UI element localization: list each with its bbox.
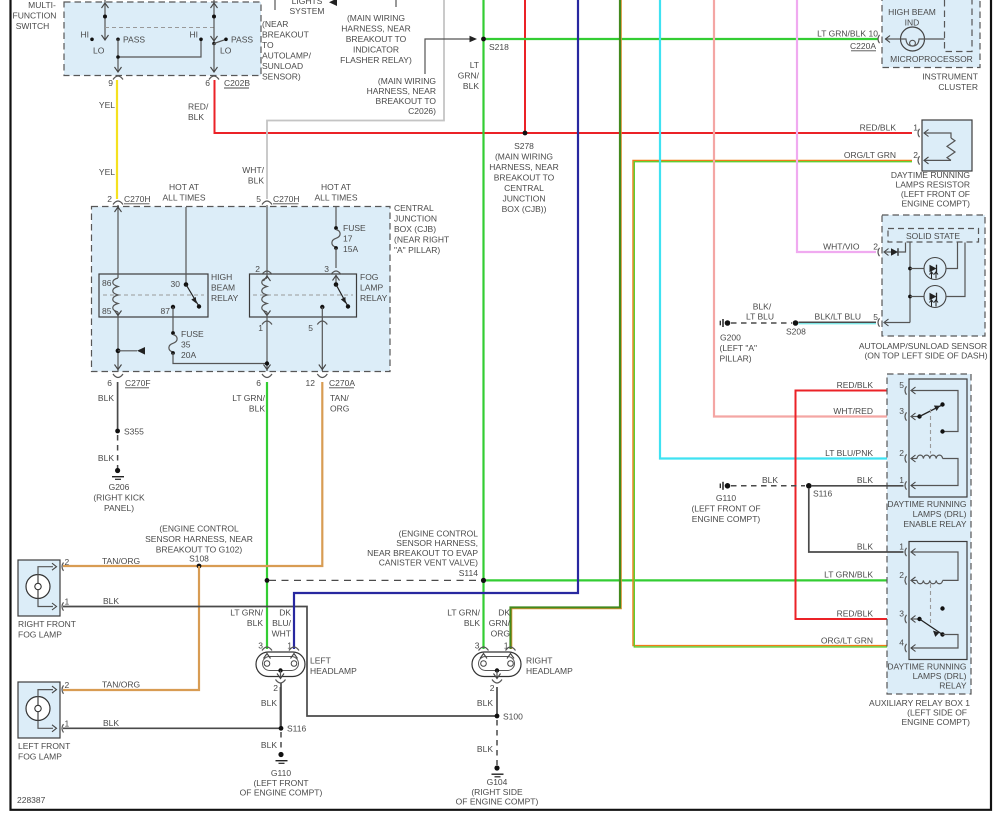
wire BLK C270F pin 6 to S355 xyxy=(117,382,119,431)
svg-text:(NEAR RIGHT: (NEAR RIGHT xyxy=(394,235,449,245)
central junction box xyxy=(92,207,391,372)
svg-text:BLK: BLK xyxy=(477,698,493,708)
svg-text:15A: 15A xyxy=(343,244,358,254)
svg-text:LO: LO xyxy=(93,46,105,56)
svg-text:LAMP: LAMP xyxy=(360,283,383,293)
svg-text:BLK: BLK xyxy=(248,176,264,186)
connector pin 6 center xyxy=(256,374,272,388)
svg-text:LT GRN/: LT GRN/ xyxy=(447,608,480,618)
high beam relay label xyxy=(211,272,239,303)
svg-text:5: 5 xyxy=(899,380,904,390)
svg-text:6: 6 xyxy=(256,378,261,388)
svg-text:BREAKOUT: BREAKOUT xyxy=(262,30,309,40)
svg-text:ORG/LT GRN: ORG/LT GRN xyxy=(821,636,873,646)
MFS HI contact left xyxy=(81,30,94,42)
svg-text:C270H: C270H xyxy=(273,194,299,204)
fog relay pin 3 xyxy=(324,248,341,275)
svg-text:SENSOR HARNESS, NEAR: SENSOR HARNESS, NEAR xyxy=(145,534,253,544)
high beam relay box xyxy=(99,274,208,317)
svg-text:BOX (CJB)): BOX (CJB)) xyxy=(502,204,547,214)
svg-text:3: 3 xyxy=(324,264,329,274)
HB relay switch blade xyxy=(186,285,201,309)
svg-text:(ENGINE CONTROL: (ENGINE CONTROL xyxy=(159,524,239,534)
svg-text:S116: S116 xyxy=(813,489,832,499)
svg-text:HI: HI xyxy=(81,30,90,40)
sensor label xyxy=(859,341,988,361)
svg-text:PASS: PASS xyxy=(231,35,253,45)
svg-text:AUTOLAMP/: AUTOLAMP/ xyxy=(262,51,312,61)
HB relay coil out wire xyxy=(115,311,122,372)
svg-text:(RIGHT KICK: (RIGHT KICK xyxy=(93,493,145,503)
fog relay coil feed xyxy=(264,205,271,281)
svg-text:(LEFT FRONT: (LEFT FRONT xyxy=(253,778,308,788)
wire LT GRN/BLK CJB pin 6 to left headlamp pin 3 xyxy=(266,382,268,649)
fog lamp relay label xyxy=(360,272,388,303)
svg-text:LT GRN/: LT GRN/ xyxy=(232,393,265,403)
svg-text:3: 3 xyxy=(258,641,263,651)
svg-text:G110: G110 xyxy=(716,493,736,503)
svg-text:2: 2 xyxy=(255,264,260,274)
svg-text:YEL: YEL xyxy=(99,100,115,110)
svg-text:RIGHT FRONT: RIGHT FRONT xyxy=(18,619,76,629)
S114 location note xyxy=(367,528,478,578)
HB relay contact 30 feed xyxy=(171,207,189,289)
svg-text:RED/: RED/ xyxy=(188,102,209,112)
svg-text:(LEFT "A": (LEFT "A" xyxy=(720,343,758,353)
svg-text:NEAR BREAKOUT TO EVAP: NEAR BREAKOUT TO EVAP xyxy=(367,548,478,558)
wire BLK right headlamp pin 2 to S100 xyxy=(496,687,498,716)
svg-text:228387: 228387 xyxy=(17,795,46,805)
svg-text:C270H: C270H xyxy=(124,194,150,204)
diode at sensor pin 2 xyxy=(891,243,906,256)
fuse 17 feed xyxy=(335,207,337,228)
wire BLK/LT BLU S208 to sensor pin 5 xyxy=(799,322,877,324)
svg-text:86: 86 xyxy=(102,278,112,288)
left front fog lamp xyxy=(18,680,70,762)
svg-text:(ON TOP LEFT SIDE OF DASH): (ON TOP LEFT SIDE OF DASH) xyxy=(864,351,987,361)
connector C220A pin 10 xyxy=(850,29,880,52)
svg-text:CANISTER VENT VALVE): CANISTER VENT VALVE) xyxy=(379,558,478,568)
svg-text:LT BLU/PNK: LT BLU/PNK xyxy=(825,448,873,458)
svg-text:1: 1 xyxy=(258,323,263,333)
svg-text:"A" PILLAR): "A" PILLAR) xyxy=(394,245,440,255)
svg-text:(MAIN WIRING: (MAIN WIRING xyxy=(495,152,553,162)
splice S108 xyxy=(189,554,209,569)
splice S100 xyxy=(495,712,524,722)
svg-text:HOT AT: HOT AT xyxy=(321,182,351,192)
multi-function switch box xyxy=(64,2,261,76)
S108 location note xyxy=(145,524,253,555)
label HOT AT ALL TIMES left xyxy=(163,182,206,203)
svg-text:BREAKOUT TO: BREAKOUT TO xyxy=(346,34,407,44)
svg-text:SOLID STATE: SOLID STATE xyxy=(906,231,960,241)
svg-text:FUSE: FUSE xyxy=(343,223,366,233)
svg-text:DK: DK xyxy=(279,608,291,618)
right front fog lamp xyxy=(18,557,76,640)
wire TAN/ORG S108 down to left fog lamp xyxy=(63,566,199,690)
svg-text:WHT/VIO: WHT/VIO xyxy=(823,242,860,252)
svg-text:BLK: BLK xyxy=(261,698,277,708)
svg-text:FOG LAMP: FOG LAMP xyxy=(18,752,62,762)
note main wiring harness near breakout to indicator flasher relay xyxy=(340,13,412,65)
svg-text:6: 6 xyxy=(205,78,210,88)
svg-text:BREAKOUT TO G102): BREAKOUT TO G102) xyxy=(156,545,243,555)
svg-text:GRN/: GRN/ xyxy=(458,71,480,81)
DRL enable relay label xyxy=(887,499,967,529)
svg-text:BLK/LT BLU: BLK/LT BLU xyxy=(815,312,861,322)
svg-text:WHT/RED: WHT/RED xyxy=(833,406,873,416)
svg-text:C2026): C2026) xyxy=(408,106,436,116)
svg-text:DAYTIME RUNNING: DAYTIME RUNNING xyxy=(891,170,970,180)
feed arrow junction on BLK coil return xyxy=(116,347,145,355)
svg-text:RELAY: RELAY xyxy=(939,681,967,691)
svg-text:PANEL): PANEL) xyxy=(104,503,134,513)
wire YEL MFS pin 9 to C270H pin 2 xyxy=(116,80,118,199)
svg-text:PILLAR): PILLAR) xyxy=(720,354,752,364)
MFS pass link wire xyxy=(115,38,203,73)
ground G110 left xyxy=(240,752,323,798)
svg-text:BLK: BLK xyxy=(464,618,480,628)
svg-text:TO: TO xyxy=(262,40,274,50)
label WHT/BLK xyxy=(242,165,264,186)
wire BLK dashed G110 to S116 xyxy=(731,485,805,487)
note main wiring harness near breakout to C2026 xyxy=(367,76,437,116)
phototransistor lower xyxy=(910,243,965,308)
splice S218 xyxy=(481,37,509,52)
svg-text:BLK: BLK xyxy=(463,81,479,91)
svg-text:5: 5 xyxy=(308,323,313,333)
svg-text:BLK: BLK xyxy=(857,475,873,485)
splice S208 xyxy=(786,320,806,336)
enable relay pin 3 and blade xyxy=(899,402,944,420)
svg-text:LAMPS (DRL): LAMPS (DRL) xyxy=(913,509,967,519)
auxiliary relay box label xyxy=(869,698,970,727)
svg-text:BLK: BLK xyxy=(477,744,493,754)
svg-text:1: 1 xyxy=(65,719,70,729)
svg-text:CLUSTER: CLUSTER xyxy=(938,82,978,92)
svg-text:ENGINE COMPT): ENGINE COMPT) xyxy=(902,199,971,209)
svg-text:1: 1 xyxy=(899,542,904,552)
svg-text:ORG/LT GRN: ORG/LT GRN xyxy=(844,150,896,160)
wire fuse 35 to fog relay output xyxy=(173,353,267,364)
svg-text:C202B: C202B xyxy=(224,78,250,88)
splice S116 right xyxy=(806,483,832,499)
svg-text:4: 4 xyxy=(899,638,904,648)
svg-text:BLK: BLK xyxy=(261,740,277,750)
HB relay coil xyxy=(113,278,118,312)
high beam ind label xyxy=(888,7,936,28)
wire DK GRN/ORG from top to right headlamp pin 1 xyxy=(511,0,621,649)
svg-text:ORG: ORG xyxy=(330,404,349,414)
DRL relay pin 4 xyxy=(899,638,915,653)
svg-text:BLK: BLK xyxy=(98,453,114,463)
wire LT BLU/PNK from top to DRL enable relay pin 2 xyxy=(660,0,904,459)
MFS pin 6 / C202B xyxy=(205,76,250,88)
wire BLK left headlamp pin 2 to S116 xyxy=(280,687,282,726)
splice S355 xyxy=(115,427,144,437)
wire BLK dashed S116 to G110 xyxy=(280,732,282,752)
svg-text:BLK: BLK xyxy=(103,718,119,728)
wire RED/BLK MFS pin 6 down and across to DRL resistor pin 1 xyxy=(215,80,913,133)
svg-text:RELAY: RELAY xyxy=(211,293,239,303)
svg-text:S355: S355 xyxy=(124,427,144,437)
enable relay actuator dashed link xyxy=(930,409,932,454)
svg-text:IND: IND xyxy=(905,18,920,28)
svg-text:SWITCH: SWITCH xyxy=(16,21,50,31)
svg-text:LO: LO xyxy=(220,46,232,56)
svg-text:S116: S116 xyxy=(287,724,306,734)
enable relay coil pin 2 xyxy=(899,448,958,486)
svg-text:G200: G200 xyxy=(720,333,741,343)
svg-text:DK: DK xyxy=(498,608,510,618)
svg-text:3: 3 xyxy=(475,641,480,651)
svg-text:JUNCTION: JUNCTION xyxy=(503,194,546,204)
ground G200 xyxy=(720,319,758,364)
svg-text:HI: HI xyxy=(190,30,199,40)
svg-text:BLK: BLK xyxy=(103,596,119,606)
svg-text:RED/BLK: RED/BLK xyxy=(837,609,874,619)
svg-text:YEL: YEL xyxy=(99,167,115,177)
wire BLK left fog lamp pin 1 to S116 xyxy=(63,683,281,728)
label RED/BLK at MFS xyxy=(188,102,209,123)
svg-text:CENTRAL: CENTRAL xyxy=(504,183,544,193)
svg-text:ORG: ORG xyxy=(491,629,510,639)
MFS pin 9 xyxy=(108,76,123,88)
svg-text:RIGHT: RIGHT xyxy=(526,656,552,666)
svg-text:(MAIN WIRING: (MAIN WIRING xyxy=(347,13,405,23)
svg-text:(LEFT FRONT OF: (LEFT FRONT OF xyxy=(901,189,970,199)
high beam indicator bulb xyxy=(885,27,945,51)
fog relay coil xyxy=(262,278,267,312)
svg-text:C220A: C220A xyxy=(850,41,876,51)
svg-text:CENTRAL: CENTRAL xyxy=(394,203,434,213)
svg-text:(ENGINE CONTROL: (ENGINE CONTROL xyxy=(399,528,479,538)
svg-text:LAMPS (DRL): LAMPS (DRL) xyxy=(913,671,967,681)
svg-text:35: 35 xyxy=(181,340,191,350)
svg-text:10: 10 xyxy=(869,29,879,39)
wire LT GRN/BLK horizontal to instrument cluster pin 10 xyxy=(484,38,879,40)
label LT GRN/BLK below S218 xyxy=(458,60,480,91)
svg-text:TAN/ORG: TAN/ORG xyxy=(102,556,140,566)
label HOT AT ALL TIMES right xyxy=(315,182,358,203)
svg-text:6: 6 xyxy=(107,378,112,388)
svg-text:2: 2 xyxy=(107,194,112,204)
wire WHT/BLK from top to C270H pin 5 xyxy=(267,0,444,199)
svg-text:SENSOR): SENSOR) xyxy=(262,72,301,82)
svg-text:ALL TIMES: ALL TIMES xyxy=(315,193,358,203)
svg-text:S278: S278 xyxy=(514,141,534,151)
svg-text:(LEFT FRONT OF: (LEFT FRONT OF xyxy=(691,504,760,514)
sensor pin 5 xyxy=(873,312,910,327)
svg-text:PASS: PASS xyxy=(123,35,145,45)
connector C270H pin 2 xyxy=(107,194,150,205)
wire RED/BLK stub above S278 xyxy=(524,0,526,133)
svg-text:(MAIN WIRING: (MAIN WIRING xyxy=(378,76,436,86)
svg-text:OF ENGINE COMPT): OF ENGINE COMPT) xyxy=(240,788,323,798)
svg-text:SYSTEM: SYSTEM xyxy=(290,6,325,16)
svg-text:HEADLAMP: HEADLAMP xyxy=(526,666,573,676)
svg-text:INSTRUMENT: INSTRUMENT xyxy=(922,72,978,82)
DRL enable relay box xyxy=(909,379,967,497)
svg-text:5: 5 xyxy=(256,194,261,204)
splice S116 left xyxy=(279,724,307,734)
svg-text:HARNESS, NEAR: HARNESS, NEAR xyxy=(367,86,436,96)
sensor internal bus wire xyxy=(908,243,912,323)
resistor element xyxy=(924,130,955,164)
svg-text:ENGINE COMPT): ENGINE COMPT) xyxy=(692,514,761,524)
svg-text:RED/BLK: RED/BLK xyxy=(860,123,897,133)
wire TAN/ORG CJB pin 12 to fog lamps xyxy=(63,382,322,566)
svg-text:1: 1 xyxy=(899,475,904,485)
label DK BLU/WHT xyxy=(272,608,292,639)
fuse 17 xyxy=(332,223,366,254)
fog relay switch blade xyxy=(336,285,350,309)
wire BLK S116 to enable relay pin 1 xyxy=(811,485,904,487)
svg-text:(NEAR: (NEAR xyxy=(262,19,288,29)
DRL relay floating contact xyxy=(940,606,944,610)
HB relay coil feed wire from pin 2 xyxy=(115,205,122,278)
svg-text:1: 1 xyxy=(913,123,918,133)
svg-text:BOX (CJB): BOX (CJB) xyxy=(394,224,436,234)
phototransistor upper xyxy=(910,243,958,280)
svg-text:BLK: BLK xyxy=(857,542,873,552)
wire BLK dashed S100 to G104 xyxy=(496,720,498,765)
svg-text:2: 2 xyxy=(490,683,495,693)
svg-text:TAN/ORG: TAN/ORG xyxy=(102,680,140,690)
svg-text:LT GRN/BLK: LT GRN/BLK xyxy=(824,570,873,580)
wire RED/BLK DRL enable relay pin 5 to DRL relay pin 3 xyxy=(796,391,904,620)
svg-text:LT GRN/: LT GRN/ xyxy=(230,608,263,618)
fog relay contact feed dot xyxy=(333,275,340,287)
fog relay pin 5 xyxy=(308,321,327,370)
svg-text:2: 2 xyxy=(899,570,904,580)
DRL relay actuator dashed link xyxy=(930,584,932,627)
microprocessor inner box xyxy=(945,0,973,52)
connector C270A pin 12 xyxy=(306,374,356,388)
svg-text:INDICATOR: INDICATOR xyxy=(353,45,399,55)
MFS right switch pole xyxy=(211,0,228,72)
svg-text:LEFT FRONT: LEFT FRONT xyxy=(18,741,70,751)
svg-text:S100: S100 xyxy=(503,712,523,722)
svg-text:20A: 20A xyxy=(181,350,196,360)
svg-text:JUNCTION: JUNCTION xyxy=(394,214,437,224)
svg-text:LEFT: LEFT xyxy=(310,656,331,666)
svg-text:BREAKOUT TO: BREAKOUT TO xyxy=(376,96,437,106)
right headlamp xyxy=(472,641,573,694)
note near breakout to autolamp/sunload sensor xyxy=(262,19,312,82)
wire LT GRN/BLK S114 to DRL relay pin 2 xyxy=(486,579,904,581)
MFS PASS contact left xyxy=(116,35,145,45)
svg-text:LAMPS RESISTOR: LAMPS RESISTOR xyxy=(896,180,970,190)
resistor pin 1 xyxy=(913,123,919,138)
ground G206 xyxy=(93,468,145,513)
ground G104 xyxy=(456,765,539,806)
svg-text:HOT AT: HOT AT xyxy=(169,182,199,192)
svg-text:WHT/: WHT/ xyxy=(242,165,264,175)
DRL relay label xyxy=(887,662,967,691)
svg-text:1: 1 xyxy=(287,641,292,651)
wire BLK S116 to DRL relay pin 1 xyxy=(809,488,904,552)
svg-text:LT BLU: LT BLU xyxy=(746,312,774,322)
svg-text:BLK: BLK xyxy=(762,475,778,485)
relay divider dashed xyxy=(103,294,204,296)
svg-text:HARNESS, NEAR: HARNESS, NEAR xyxy=(489,162,558,172)
svg-text:85: 85 xyxy=(102,306,112,316)
wire BLK dashed S355 to G206 xyxy=(117,435,119,468)
fog lamp relay box xyxy=(250,274,357,317)
svg-text:G104: G104 xyxy=(487,777,508,787)
instrument cluster label xyxy=(922,72,978,93)
svg-text:MULTI-: MULTI- xyxy=(28,0,56,10)
label LT GRN/BLK xyxy=(232,393,265,414)
lights system callout with arrow xyxy=(275,0,337,16)
svg-text:3: 3 xyxy=(899,609,904,619)
label LT GRN/BLK left headlamp xyxy=(230,608,263,629)
svg-text:BLK: BLK xyxy=(188,112,204,122)
wire LT GRN/BLK vertical S218 to S114 to right headlamp pin 3 xyxy=(482,0,484,649)
svg-text:RELAY: RELAY xyxy=(360,293,388,303)
fog relay pin 2 xyxy=(255,264,272,275)
wire ORG/LT GRN resistor pin 2 to DRL relay pin 4 xyxy=(633,160,912,647)
DRL relay pin 1 xyxy=(899,542,958,581)
svg-text:BLK: BLK xyxy=(98,393,114,403)
enable relay pin 5 xyxy=(899,380,958,434)
svg-text:LT: LT xyxy=(470,60,479,70)
svg-text:5: 5 xyxy=(873,312,878,322)
resistor label xyxy=(891,170,970,209)
connector C270H pin 5 xyxy=(256,194,299,205)
MFS mechanical link dashed xyxy=(105,27,214,29)
label LT GRN/BLK right headlamp xyxy=(447,608,480,629)
svg-text:3: 3 xyxy=(899,406,904,416)
leader arrow into S218 xyxy=(425,36,477,74)
svg-text:OF ENGINE COMPT): OF ENGINE COMPT) xyxy=(456,797,539,807)
wire DK BLU/WHT from top to left headlamp pin 1 xyxy=(294,0,578,649)
svg-text:2: 2 xyxy=(273,683,278,693)
stub wire at top center xyxy=(395,0,397,7)
svg-text:17: 17 xyxy=(343,234,353,244)
svg-text:BLK/: BLK/ xyxy=(753,302,772,312)
svg-text:G110: G110 xyxy=(271,768,291,778)
svg-text:FUSE: FUSE xyxy=(181,329,204,339)
svg-text:ENGINE COMPT): ENGINE COMPT) xyxy=(902,717,971,727)
junction dot on green at S114 dashed tie xyxy=(265,578,270,583)
svg-text:(RIGHT SIDE: (RIGHT SIDE xyxy=(471,787,523,797)
svg-text:12: 12 xyxy=(306,378,316,388)
svg-text:ALL TIMES: ALL TIMES xyxy=(163,193,206,203)
resistor pin 2 xyxy=(913,150,919,165)
svg-text:MICROPROCESSOR: MICROPROCESSOR xyxy=(890,54,973,64)
wire BLK/LT BLU dashed G200 to S208 xyxy=(731,322,792,324)
svg-text:(LEFT SIDE OF: (LEFT SIDE OF xyxy=(907,708,967,718)
fog relay contact to pin 5 xyxy=(320,305,324,371)
solid state inner box xyxy=(888,229,979,243)
fuse 35 xyxy=(169,329,204,360)
svg-text:S208: S208 xyxy=(786,327,806,337)
svg-text:BREAKOUT TO: BREAKOUT TO xyxy=(494,173,555,183)
svg-text:S114: S114 xyxy=(459,568,478,578)
label TAN/ORG xyxy=(330,393,349,414)
HB relay contact 87 xyxy=(161,305,176,316)
auxiliary relay box 1 xyxy=(887,374,971,694)
dashed tie wire between green junction and S114 xyxy=(269,579,481,581)
svg-text:2: 2 xyxy=(873,242,878,252)
svg-text:1: 1 xyxy=(65,597,70,607)
svg-text:1: 1 xyxy=(504,641,509,651)
svg-text:SENSOR HARNESS,: SENSOR HARNESS, xyxy=(396,538,478,548)
fog relay coil out wire to CJB pin 6 xyxy=(264,312,271,371)
DRL relay coil pin 2 xyxy=(899,570,942,585)
